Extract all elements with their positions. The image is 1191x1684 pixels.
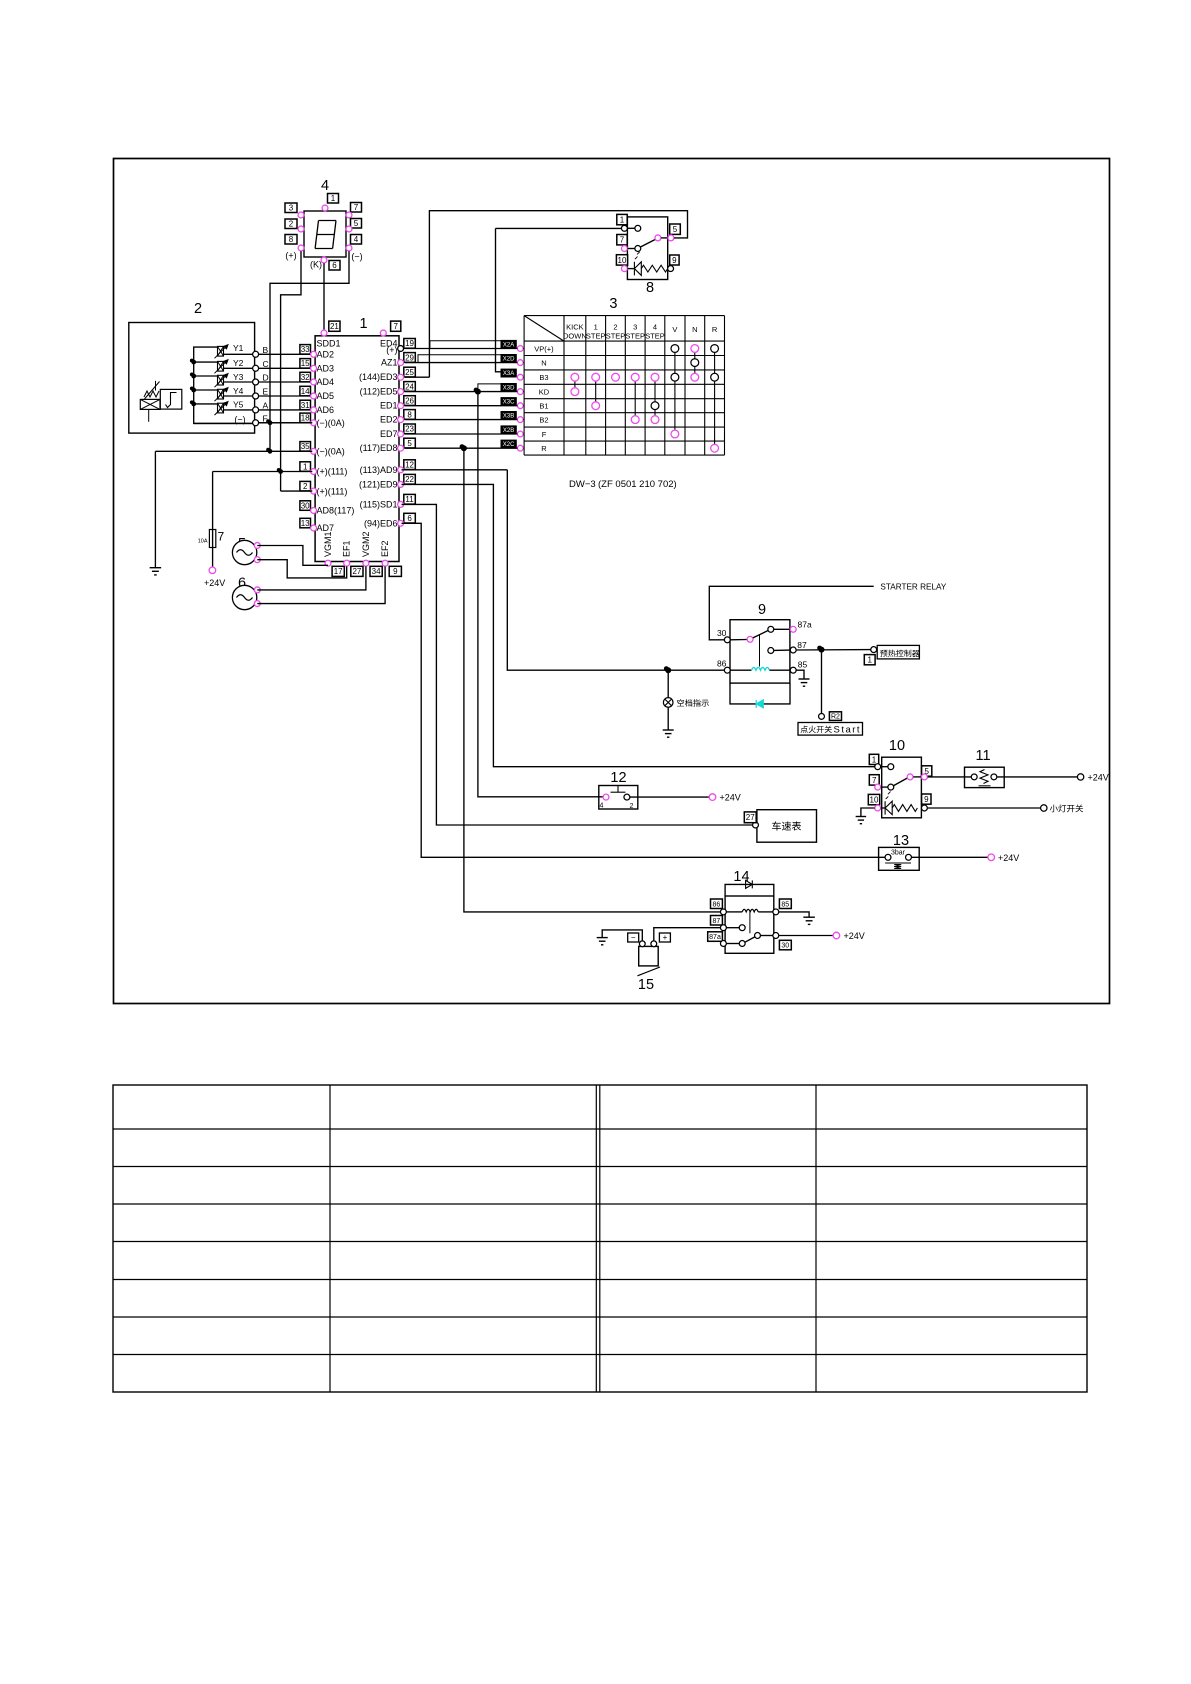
wire ECU pin25 stub [405,376,430,378]
relay14 coil [727,911,743,913]
svg-text:Y4: Y4 [233,386,244,396]
switch12 pin 2 [624,794,630,800]
svg-text:27: 27 [746,813,755,822]
connector label X3D [501,384,516,391]
relay9 LED cyan [756,700,763,708]
switch10 pin 7 [869,775,879,785]
svg-text:Y5: Y5 [233,400,244,410]
switch10 arm [894,778,908,786]
ECU right pin 23 ED7 [404,424,416,434]
svg-text:KD: KD [539,387,550,396]
switch8 pin 10 [616,255,627,265]
ECU left pin 13 AD7 [300,518,311,528]
connector label X2B [501,426,516,433]
net (115)SD1 drop to speedometer [402,504,753,825]
light switch terminal [1041,805,1047,811]
table3 link 4step [654,377,656,419]
svg-text:34: 34 [372,567,381,576]
svg-text:N: N [692,325,697,334]
svg-text:(144)ED3: (144)ED3 [359,372,398,382]
connector label X3C [501,398,516,405]
svg-text:30: 30 [781,943,789,950]
svg-text:11: 11 [405,495,414,504]
svg-text:5: 5 [673,225,678,234]
wire battery plus to relay14 87 [654,928,720,941]
svg-text:Y1: Y1 [233,343,244,353]
wire display(-) to ground rail [270,251,349,451]
display pin 3 [285,203,297,213]
wire ECU to table row 24 KD [405,391,518,393]
svg-text:X3B: X3B [503,414,514,420]
svg-text:VP(+): VP(+) [534,344,554,353]
wire switch8 pin5 to ECU pin25 [429,211,687,378]
bus junction [191,374,196,379]
relay9 pin85 [790,667,796,673]
svg-text:(−)(0A): (−)(0A) [317,447,345,457]
connector label X2D [501,355,516,362]
svg-text:7: 7 [218,530,225,544]
ignition switch label box [798,723,863,736]
relay14 link [749,912,751,933]
svg-text:10A: 10A [198,539,208,545]
net (117)ED8 drop to relay14 [464,448,720,912]
wire ECU to table row 23 F [405,433,518,435]
terminal E [256,395,312,397]
bus junction [191,402,196,407]
relay9 pin 87a [774,628,790,630]
ECU right pin 22 (121)ED9 [404,474,416,484]
svg-text:3bar: 3bar [891,849,906,856]
svg-text:STEP: STEP [586,332,606,341]
svg-text:X2A: X2A [503,343,514,349]
ECU right pin 6 (94)ED6 [404,513,416,523]
switch10 lamp diode [881,807,885,809]
svg-text:19: 19 [405,339,414,348]
net (113)AD9 drop to relay coil [507,470,724,670]
connector label X2C [501,440,516,447]
ECU right pin 11 (115)SD1 [404,494,416,504]
svg-text:5: 5 [407,439,412,448]
svg-text:31: 31 [301,401,310,410]
battery minus box [628,933,639,942]
wire sensor5 pin1 to VGM1 [257,546,328,566]
switch10 pin 9 [922,794,931,804]
bus junction [191,388,196,393]
preheat controller box [877,645,919,659]
svg-text:X3C: X3C [503,400,515,406]
svg-text:21: 21 [330,322,339,331]
svg-text:+24V: +24V [998,853,1019,863]
table3 header diagonal [524,316,564,342]
svg-text:EF2: EF2 [380,540,390,557]
svg-text:AD5: AD5 [317,391,335,401]
svg-text:STARTER RELAY: STARTER RELAY [880,583,947,592]
ECU bottom pin 17 VGM1 [325,560,331,566]
wire ECU pin2 to rail [281,490,313,492]
svg-text:(+)(111): (+)(111) [317,467,348,477]
svg-text:33: 33 [301,345,310,354]
svg-text:1: 1 [867,656,872,665]
svg-text:1: 1 [620,215,625,224]
solenoid valve Y1 [218,346,224,356]
svg-text:22: 22 [405,475,414,484]
wire ECU pin18 [259,422,313,424]
display pin 4 [351,235,362,245]
svg-text:VGM1: VGM1 [323,531,333,557]
wire switch10 pin9 to light switch [928,807,1041,809]
neutral indicator lamp [667,670,669,698]
ECU right pin 8 ED2 [404,410,416,420]
wire ECU pin1 +24V rail [213,471,313,473]
connector label X3A [501,369,516,376]
ECU right pin 26 ED1 [404,396,416,406]
relay9 link [759,635,761,667]
wire table row stubs [522,348,525,350]
svg-text:9: 9 [672,256,677,265]
net (94)ED6 drop to pressure switch [402,523,886,857]
wire sensor6 pin2 to EF2 [257,566,385,603]
wire valve Y3 output [224,381,256,383]
svg-text:+: + [663,933,668,942]
net (121)ED9 drop to switch10 [402,484,875,766]
svg-text:8: 8 [289,235,294,244]
svg-text:AD6: AD6 [317,405,335,415]
svg-text:15: 15 [301,359,310,368]
svg-text:ED7: ED7 [380,429,398,439]
switch10 pin 10 [868,794,879,804]
junction display-minus on F wire [268,420,273,425]
svg-text:17: 17 [334,567,343,576]
battery plus box [659,933,670,942]
STARTER RELAY wire [709,586,873,640]
speedometer box [757,810,817,843]
svg-text:6: 6 [407,514,412,523]
svg-text:29: 29 [405,353,414,362]
wire sensor6 pin1 to VGM2 [257,566,366,590]
svg-text:(112)ED5: (112)ED5 [360,387,398,397]
svg-text:2: 2 [289,220,294,229]
svg-text:V: V [672,325,677,334]
svg-text:87a: 87a [798,619,812,629]
svg-text:23: 23 [405,425,414,434]
svg-text:X2B: X2B [503,428,514,434]
wire switch13 to +24V [912,856,988,858]
svg-text:+24V: +24V [204,578,225,588]
svg-text:1: 1 [360,316,368,332]
R2 terminal [819,713,825,719]
svg-text:Y2: Y2 [233,358,244,368]
relay9 pin86 [724,667,730,673]
relay9 coil [730,669,751,671]
ECU left pin 15 AD3 [300,359,311,369]
svg-text:11: 11 [975,748,990,764]
display pin 8 [285,235,297,245]
wire ECU to table row 26 B1 [405,405,518,407]
svg-text:KICK: KICK [566,323,584,332]
ECU left pin 18 (−)(0A) [300,413,311,423]
ECU bottom pin 9 EF2 [382,560,388,566]
svg-text:5: 5 [354,219,359,228]
svg-text:9: 9 [393,567,398,576]
ECU right pin 25 (144)ED3 [404,367,416,377]
ECU left pin 35 (−)(0A) [300,442,311,452]
table3 link 1step [595,377,597,406]
svg-text:F: F [542,430,547,439]
+24V terminal right [1077,774,1083,780]
svg-text:Start: Start [834,725,862,736]
svg-text:STEP: STEP [645,332,665,341]
svg-text:30: 30 [301,501,310,510]
relay9 ground [796,670,804,679]
svg-text:X3A: X3A [503,371,514,377]
svg-text:X2D: X2D [503,357,515,363]
svg-text:85: 85 [781,901,789,908]
ECU left pin 31 AD6 [300,400,311,410]
svg-text:A: A [263,400,269,410]
svg-text:(ZF 0501 210 702): (ZF 0501 210 702) [598,479,677,490]
svg-text:1: 1 [872,755,877,764]
svg-text:3: 3 [609,296,617,312]
connector label X2A [501,341,516,348]
ECU left pin 32 AD4 [300,372,311,382]
svg-text:E: E [263,387,269,397]
svg-text:(+)(111): (+)(111) [317,486,348,496]
relay14 pin85 [779,899,791,909]
relay9 contact common [730,639,747,641]
svg-text:ED2: ED2 [380,415,398,425]
wire valve Y5 output [224,409,256,411]
svg-text:DOWN: DOWN [563,332,587,341]
svg-text:7: 7 [393,322,398,331]
svg-text:32: 32 [301,373,310,382]
svg-text:D: D [263,373,269,383]
switch10 pin 5 [922,766,932,776]
svg-text:−: − [631,933,636,942]
svg-text:N: N [541,358,546,367]
svg-text:VGM2: VGM2 [361,531,371,557]
net B3 vertical [496,228,502,371]
ECU right pin 19 [404,339,416,349]
svg-text:15: 15 [638,977,654,993]
relay14 diode [746,880,753,888]
ECU right pin 29 AZ1 [404,353,416,363]
ignition switch start wire [821,650,823,714]
svg-text:B1: B1 [539,402,548,411]
svg-text:3: 3 [633,323,637,332]
svg-text:(K): (K) [310,260,322,270]
svg-text:1: 1 [303,462,308,471]
switch8 pin 1 [617,214,627,224]
display pin 1 [328,194,339,204]
junction display-plus rail [278,469,283,474]
svg-text:+24V: +24V [844,931,865,941]
svg-text:87: 87 [713,918,721,925]
svg-text:B: B [263,345,269,355]
terminal B [256,353,312,355]
switch8 pin 5 [670,224,681,234]
net (112)ED5 drop to kickdown switch [478,392,603,797]
svg-text:(+): (+) [386,345,397,355]
switch8 pin 9 [670,255,679,265]
table3 contacts [671,345,679,353]
svg-text:4: 4 [600,803,604,810]
svg-text:2: 2 [303,482,308,491]
svg-text:8: 8 [407,410,412,419]
svg-text:8: 8 [646,280,654,296]
svg-text:1: 1 [331,194,336,203]
ECU left pin 14 AD5 [300,386,311,396]
ground main [154,451,156,567]
wire switch12 to +24V [630,796,709,798]
svg-text:STEP: STEP [606,332,626,341]
junction ED8 drop [461,445,467,451]
svg-text:85: 85 [798,660,808,670]
junction lamp branch [665,667,671,673]
relay14 ground [779,912,809,917]
relay14 pin87a [708,932,723,942]
wire F(-) row [194,422,256,424]
switch8 lamp diode [628,268,634,270]
table3 link 3step [634,377,636,419]
svg-text:STEP: STEP [625,332,645,341]
svg-text:24: 24 [405,382,414,391]
svg-text:12: 12 [610,770,626,786]
switch13 contacts [885,854,891,860]
ECU right pin 5 (117)ED8 [404,438,416,448]
solenoid valve Y5 [194,403,218,405]
svg-text:86: 86 [717,659,727,669]
wire switch10 pin5 to resistor11 [928,776,972,778]
terminal C [256,367,312,369]
ECU left pin 33 AD2 [300,345,311,355]
svg-text:35: 35 [301,442,310,451]
svg-text:AZ1: AZ1 [381,358,398,368]
solenoid valve Y4 [194,389,218,391]
svg-text:9: 9 [758,602,766,618]
table3 link N [694,349,696,378]
svg-text:7: 7 [354,203,359,212]
relay14 diode loop [725,884,774,896]
relay14 arm [745,937,755,942]
svg-text:(121)ED9: (121)ED9 [359,479,398,489]
ECU bottom pin 27 EF1 [344,560,350,566]
svg-text:AD2: AD2 [317,350,335,360]
svg-text:10: 10 [870,795,879,804]
svg-text:ED1: ED1 [380,401,398,411]
svg-text:87a: 87a [709,934,721,941]
svg-text:Y3: Y3 [233,372,244,382]
leader X2D [418,355,501,363]
junction 87 output [819,647,825,653]
ECU left pin 2 (+)(111) [300,481,311,491]
relay14 pin86 [711,899,723,909]
switch10 ground [861,808,875,817]
svg-text:2: 2 [194,301,202,317]
svg-text:B2: B2 [539,415,548,424]
svg-text:13: 13 [301,519,310,528]
terminal F [256,422,312,424]
svg-text:12: 12 [405,461,414,470]
svg-text:4: 4 [653,323,657,332]
svg-text:9: 9 [924,795,929,804]
wire switch8 pin1 to net B3 [496,227,622,229]
svg-text:10: 10 [889,738,905,754]
svg-text:13: 13 [893,833,909,849]
svg-text:AD8(117): AD8(117) [317,506,355,516]
svg-text:86: 86 [713,901,721,908]
wire ECU to table row 5 R [405,447,518,449]
svg-text:(94)ED6: (94)ED6 [364,518,398,528]
leader X2A [430,341,501,349]
switch12 pin 4 [603,794,609,800]
svg-text:30: 30 [717,628,727,638]
relay9 suppression loop [730,683,790,704]
svg-text:X2C: X2C [503,442,515,448]
wire valve Y4 output [224,395,256,397]
display pin 6 [329,261,340,271]
svg-text:7: 7 [620,236,625,245]
svg-text:R: R [541,444,547,453]
svg-text:R: R [712,325,718,334]
parts list table [113,1085,1087,1392]
speedometer terminal 27 [753,822,759,828]
svg-text:26: 26 [405,396,414,405]
junction ED5 drop [475,389,481,395]
svg-text:(−): (−) [351,252,362,262]
relay14 pin87 [711,916,723,926]
ECU right pin 12 (113)AD9 [404,460,416,470]
relay9 pin 87 [768,648,774,654]
relay9 arm [753,631,768,638]
table3 link R [714,349,716,449]
svg-text:AD3: AD3 [317,364,335,374]
wire ECU to table row 8 B2 [405,419,518,421]
valve bus wire [194,347,256,423]
svg-text:14: 14 [733,869,749,885]
proportional pressure valve symbol [140,399,160,409]
svg-text:+24V: +24V [720,793,741,803]
wire ECU pin35 ground [155,450,312,452]
display pin 5 [351,219,362,229]
preheat controller terminal [871,647,877,653]
junction minus rail pin35 [268,449,273,454]
display pin 2 [285,219,297,229]
svg-text:AD4: AD4 [317,377,335,387]
svg-text:R2: R2 [831,714,840,721]
svg-text:+24V: +24V [1088,773,1109,783]
svg-text:7: 7 [872,776,877,785]
wire sensor5 pin2 to EF1 [257,560,346,578]
svg-text:X3D: X3D [503,386,515,392]
svg-text:(115)SD1: (115)SD1 [360,499,398,509]
table3 link kickdown [574,377,576,391]
bus junction [191,360,196,365]
svg-text:C: C [263,359,269,369]
switch8 pin 7 [617,235,627,245]
table3 link V [674,349,676,435]
wire relay14 pin30 to +24V [779,935,833,937]
wire ECU to table row 29 N [405,362,518,364]
svg-text:14: 14 [301,387,310,396]
svg-text:EF1: EF1 [342,540,352,557]
battery 15 [639,946,659,966]
svg-text:87: 87 [797,640,807,650]
ECU right pin 24 (112)ED5 [404,382,416,392]
svg-text:27: 27 [352,567,361,576]
relay14 pin30 [773,933,779,939]
svg-text:25: 25 [405,368,414,377]
svg-text:SDD1: SDD1 [317,339,341,349]
